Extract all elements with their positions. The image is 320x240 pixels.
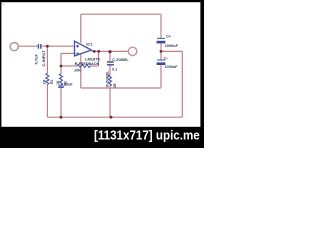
junction mid caps ground xyxy=(160,50,163,53)
capacitor C- 1000uF (polarized electrolytic, GND to V-) xyxy=(157,60,166,64)
svg-text:1R: 1R xyxy=(113,83,117,88)
wire: IN- node route to feedback resistor xyxy=(61,51,99,66)
connector X1 input circle xyxy=(10,43,18,51)
op-amp IC1 LM1875 triangle xyxy=(75,41,92,56)
wire: zobel branch down to ground rail xyxy=(109,51,111,117)
svg-text:C+: C+ xyxy=(166,35,172,39)
svg-text:[1131x717] upic.me: [1131x717] upic.me xyxy=(94,128,200,143)
wire: V- from C- bottom left to op-amp bottom pin xyxy=(81,55,161,89)
svg-text:20K: 20K xyxy=(74,69,81,73)
wire: ground branch right side down to rail xyxy=(161,51,182,117)
resistor R1 1M (vertical zigzag, input to ground) xyxy=(46,73,49,84)
wire: op-amp output to output connector xyxy=(92,50,129,52)
resistor R2 1K (vertical zigzag, IN- to 22uF) xyxy=(60,74,63,85)
wire: 1K + 22uF chain to ground rail xyxy=(60,66,62,117)
wire: R1 chain vertical from input junction to ground rail xyxy=(46,46,48,117)
capacitor C1 22uF (polarized, below R2) xyxy=(58,85,64,87)
svg-text:R-FEEDBACK: R-FEEDBACK xyxy=(75,62,100,66)
connector X2 output circle xyxy=(128,47,136,55)
resistor R-FEEDBACK 20K (horizontal zigzag) xyxy=(77,65,90,68)
svg-text:C-ZOBEL: C-ZOBEL xyxy=(112,58,129,62)
capacitor C-INPUT 4.7uF (series plates) xyxy=(38,44,40,49)
svg-text:4.7uF: 4.7uF xyxy=(34,53,39,64)
svg-text:0.1: 0.1 xyxy=(112,68,117,72)
capacitor C-ZOBEL 0.1 xyxy=(107,62,114,65)
svg-text:LM1875: LM1875 xyxy=(85,56,100,61)
svg-text:IC1: IC1 xyxy=(86,41,93,46)
svg-text:1000uF: 1000uF xyxy=(164,65,178,69)
svg-text:R1: R1 xyxy=(50,79,54,84)
image black border left xyxy=(0,0,1,148)
junction rail at zobel xyxy=(110,116,113,119)
artifact mark top-left xyxy=(3,4,5,5)
capacitor C+ 1000uF (polarized electrolytic, V+ to GND) xyxy=(157,38,166,42)
svg-text:1M: 1M xyxy=(43,80,47,85)
resistor R-ZOBEL 1R (vertical zigzag) xyxy=(109,75,112,86)
junction rail at 1K chain xyxy=(60,116,63,119)
junction output feedback tap xyxy=(97,50,100,53)
svg-text:22uF: 22uF xyxy=(64,83,73,87)
junction input node xyxy=(46,45,49,48)
wire: between C+ and C- with ground tap xyxy=(160,44,162,60)
wire: V+ rail from op-amp top to C+ top xyxy=(81,14,161,43)
junction zobel tap xyxy=(108,50,111,53)
page background xyxy=(0,0,204,148)
svg-text:1K: 1K xyxy=(56,80,60,85)
svg-text:1000uF: 1000uF xyxy=(165,44,179,48)
watermark bar xyxy=(0,127,204,148)
wire: ground bottom rail xyxy=(47,116,182,118)
svg-text:C-INPUT: C-INPUT xyxy=(41,50,46,67)
junction IN- node xyxy=(60,65,63,68)
image black border right xyxy=(200,0,204,148)
wire: input stub to C-INPUT and on to op-amp IN+ xyxy=(18,45,75,47)
svg-text:R-ZOBEL: R-ZOBEL xyxy=(105,70,109,87)
junction output apex xyxy=(93,50,96,53)
image black border top xyxy=(0,0,204,2)
